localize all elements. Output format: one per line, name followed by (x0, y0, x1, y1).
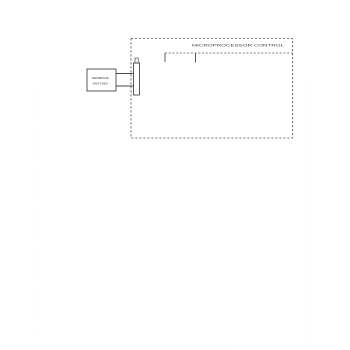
svg-text:MEMBRANE: MEMBRANE (92, 76, 109, 80)
svg-text:SWITCHES: SWITCHES (93, 82, 108, 86)
microprocessor control dashed enclosure (131, 39, 293, 139)
membrane switches block (87, 69, 116, 91)
connector ribbon header (134, 58, 140, 95)
wire dashed bus to connectors (165, 53, 292, 63)
svg-text:MICROPROCESSOR CONTROL: MICROPROCESSOR CONTROL (192, 44, 284, 48)
wire ribbon from membrane switches (116, 74, 134, 87)
